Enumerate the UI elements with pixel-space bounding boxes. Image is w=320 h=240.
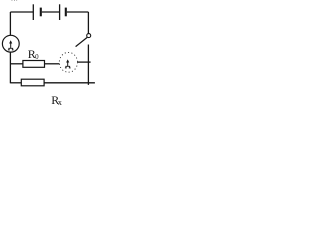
wire top-right segment — [67, 11, 89, 13]
battery B1 cell2 long plate — [59, 4, 61, 20]
wire middle branch left — [10, 63, 23, 65]
wire between battery cells — [42, 11, 60, 13]
ammeter A2 dashed circle — [59, 52, 77, 72]
svg-text:x: x — [58, 98, 62, 107]
switch S open blade — [76, 37, 88, 46]
ammeter A2 letter base — [65, 66, 71, 68]
resistor R0 box — [23, 61, 45, 68]
wire top-left segment — [10, 11, 33, 13]
ammeter A1 letter base — [8, 48, 14, 50]
ammeter A1 circle — [2, 35, 19, 52]
stray scan dots top edge — [12, 0, 18, 2]
ammeter A2 needle arrow — [67, 62, 69, 66]
battery B1 cell1 long plate — [32, 4, 34, 20]
ammeter A1 needle arrow — [10, 43, 12, 49]
wire middle branch center — [45, 63, 60, 65]
resistor Rx box — [21, 79, 44, 86]
battery B1 cell2 short thick plate — [65, 8, 67, 17]
svg-text:0: 0 — [35, 53, 39, 61]
switch S terminal circle — [87, 34, 91, 38]
wire right lower — [87, 45, 89, 85]
wire right upper — [87, 12, 89, 34]
wire left lower — [9, 52, 11, 83]
battery B1 cell1 short thick plate — [40, 8, 42, 17]
wire bottom left segment — [10, 82, 21, 84]
wire left upper — [9, 12, 11, 35]
wire middle branch right — [78, 61, 91, 63]
wire bottom right segment — [44, 82, 95, 84]
